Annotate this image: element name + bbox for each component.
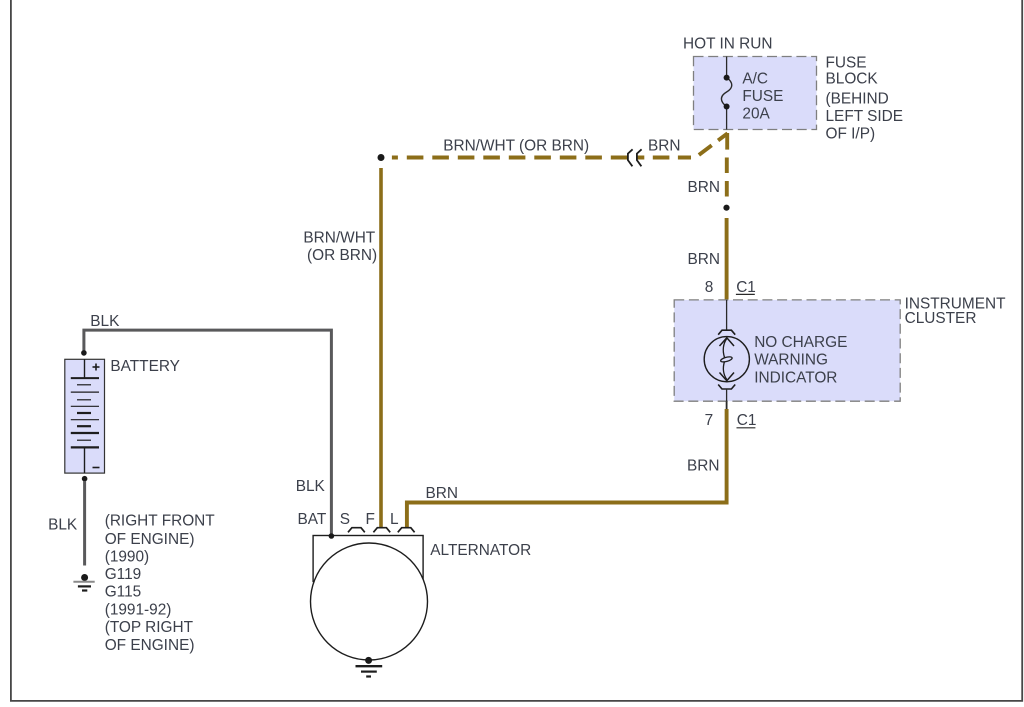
svg-text:OF I/P): OF I/P) bbox=[826, 126, 876, 143]
svg-text:(TOP RIGHT: (TOP RIGHT bbox=[105, 619, 194, 636]
svg-text:C1: C1 bbox=[736, 279, 756, 296]
svg-text:OF ENGINE): OF ENGINE) bbox=[105, 531, 195, 548]
svg-text:A/C: A/C bbox=[742, 71, 768, 88]
svg-text:BLK: BLK bbox=[90, 313, 120, 330]
svg-text:L: L bbox=[390, 511, 399, 528]
svg-text:HOT IN RUN: HOT IN RUN bbox=[683, 36, 773, 53]
svg-text:(RIGHT FRONT: (RIGHT FRONT bbox=[105, 513, 216, 530]
svg-text:OF ENGINE): OF ENGINE) bbox=[105, 637, 195, 654]
svg-text:BRN/WHT: BRN/WHT bbox=[303, 229, 375, 246]
svg-text:BRN: BRN bbox=[688, 179, 721, 196]
svg-text:G115: G115 bbox=[105, 584, 142, 601]
svg-text:NO CHARGE: NO CHARGE bbox=[754, 334, 847, 351]
svg-text:(1990): (1990) bbox=[105, 549, 150, 566]
svg-text:BATTERY: BATTERY bbox=[110, 358, 180, 375]
svg-text:(OR BRN): (OR BRN) bbox=[307, 247, 377, 264]
svg-text:8: 8 bbox=[705, 279, 714, 296]
svg-text:7: 7 bbox=[705, 412, 714, 429]
svg-text:FUSE: FUSE bbox=[826, 55, 867, 72]
svg-text:BLK: BLK bbox=[296, 478, 326, 495]
svg-text:BRN: BRN bbox=[687, 458, 720, 475]
svg-text:BRN/WHT (OR BRN): BRN/WHT (OR BRN) bbox=[443, 138, 589, 155]
svg-text:ALTERNATOR: ALTERNATOR bbox=[430, 542, 531, 559]
svg-text:FUSE: FUSE bbox=[742, 88, 783, 105]
svg-text:BLK: BLK bbox=[48, 516, 78, 533]
svg-text:S: S bbox=[340, 511, 350, 528]
svg-text:CLUSTER: CLUSTER bbox=[905, 310, 977, 327]
svg-text:BRN: BRN bbox=[426, 485, 459, 502]
svg-text:(1991-92): (1991-92) bbox=[105, 601, 172, 618]
svg-text:BLOCK: BLOCK bbox=[826, 71, 879, 88]
svg-text:LEFT SIDE: LEFT SIDE bbox=[826, 108, 904, 125]
svg-text:BRN: BRN bbox=[688, 251, 721, 268]
svg-text:C1: C1 bbox=[737, 412, 757, 429]
svg-text:INDICATOR: INDICATOR bbox=[754, 369, 837, 386]
svg-text:BAT: BAT bbox=[298, 511, 327, 528]
svg-text:BRN: BRN bbox=[648, 138, 681, 155]
svg-text:WARNING: WARNING bbox=[754, 352, 828, 369]
svg-text:F: F bbox=[366, 511, 375, 528]
svg-text:G119: G119 bbox=[105, 566, 142, 583]
svg-text:20A: 20A bbox=[742, 106, 770, 123]
svg-text:(BEHIND: (BEHIND bbox=[826, 90, 889, 107]
